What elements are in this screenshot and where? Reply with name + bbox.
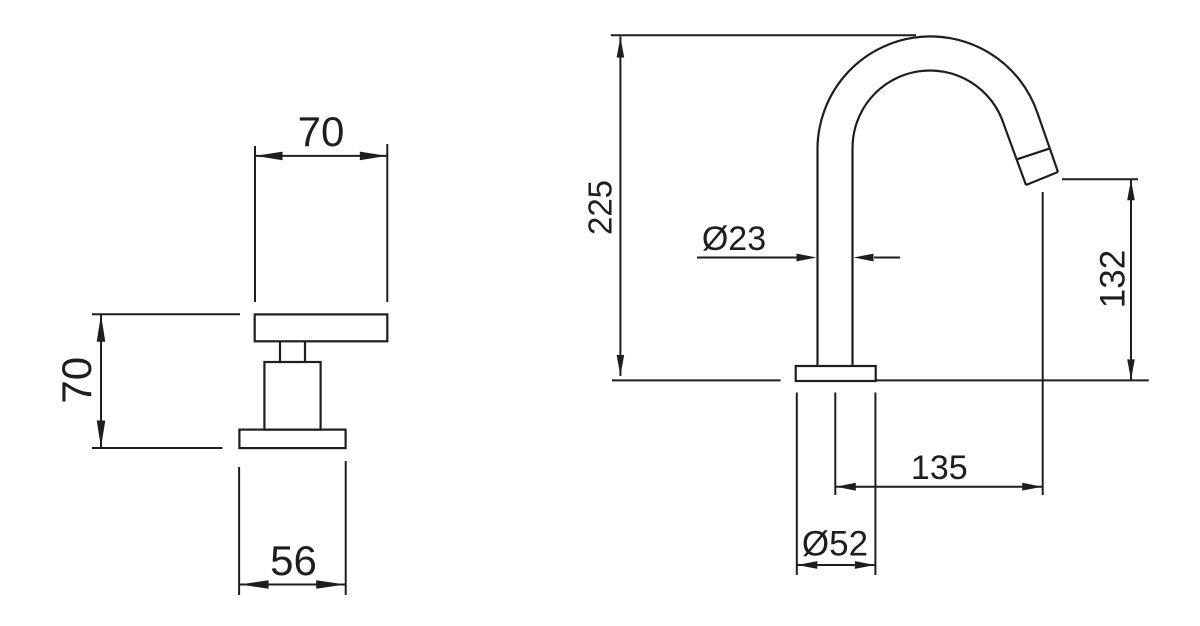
dimension 70 (top width): right arrow	[360, 152, 387, 161]
dimension Ø23: value label	[702, 220, 766, 258]
dimension 70 (top width): value label	[298, 108, 345, 155]
dimension Ø52: value label	[802, 525, 868, 564]
dimension 70 (height): dimension line	[100, 314, 102, 448]
dimension 132: value label (rotated)	[1094, 250, 1133, 308]
dimension 225: value label (rotated)	[582, 180, 619, 235]
dimension 225 (spout height): bottom arrow	[617, 355, 625, 376]
dimension Ø52: dimension line	[797, 564, 876, 566]
dimension 70 (height): top arrow	[97, 315, 106, 342]
dimension 56 (base width): extension line left	[238, 467, 240, 595]
countertop line right of base	[876, 379, 1149, 381]
spout aerator band line	[1017, 148, 1050, 159]
dimension 132 (spout outlet height): top extension line	[1062, 178, 1138, 180]
handle stem left line	[279, 341, 281, 362]
dimension 135: value label	[911, 449, 968, 487]
countertop line left of base	[612, 379, 781, 381]
dimension Ø23 (tube diameter): left leader line	[697, 257, 797, 259]
dimension 56 (base width): right arrow	[316, 580, 345, 589]
svg-text:56: 56	[270, 537, 317, 584]
dimension 135 (outlet reach): extension line from base centre	[834, 393, 836, 496]
dimension 70 (height): extension line bottom	[92, 447, 222, 449]
dimension 70 (top width): dimension line	[255, 155, 387, 157]
dimension 56 (base width): value label	[270, 537, 317, 584]
svg-text:70: 70	[298, 108, 345, 155]
dimension 70 (top width): left arrow	[256, 152, 283, 161]
dimension Ø52: left arrow	[797, 561, 817, 569]
dimension Ø52 (base diameter): extension line left	[796, 393, 798, 576]
dimension 135: dimension line	[835, 486, 1042, 488]
spout body (gooseneck tube)	[818, 36, 1059, 366]
svg-text:70: 70	[53, 357, 100, 404]
dimension 135: extension line from outlet	[1042, 192, 1044, 495]
svg-text:132: 132	[1094, 250, 1133, 308]
dimension Ø23: right leader line	[874, 257, 900, 259]
dimension 70 (top width): extension line right	[386, 144, 388, 302]
dimension 225 (spout height): dimension line	[619, 37, 621, 377]
svg-text:135: 135	[911, 449, 968, 487]
dimension 132: top arrow	[1127, 180, 1135, 201]
svg-text:225: 225	[582, 180, 619, 235]
dimension 56 (base width): left arrow	[240, 580, 269, 589]
dimension Ø23: right arrow	[854, 254, 874, 262]
handle body	[264, 362, 320, 430]
dimension Ø52: extension line right	[874, 393, 876, 576]
dimension 56 (base width): dimension line	[239, 584, 346, 586]
dimension 132: dimension line	[1130, 179, 1132, 380]
dimension 56 (base width): extension line right	[345, 461, 347, 595]
dimension 132: bottom arrow	[1127, 359, 1135, 380]
handle top bar (left view)	[255, 314, 388, 341]
dimension Ø52: right arrow	[855, 561, 875, 569]
svg-text:Ø23: Ø23	[702, 220, 766, 258]
dimension 70 (height): bottom arrow	[97, 421, 106, 448]
svg-text:Ø52: Ø52	[802, 525, 868, 564]
handle stem right line	[304, 341, 306, 362]
spout base flange	[796, 366, 876, 381]
dimension 70 (height): extension line top	[92, 313, 240, 315]
dimension 135: right arrow	[1022, 483, 1042, 491]
dimension 225 (spout height): top arrow	[617, 37, 625, 58]
dimension 135: left arrow	[836, 483, 856, 491]
dimension 225 (spout height): top extension line	[611, 34, 916, 36]
dimension 70 (top width): extension line left	[254, 146, 256, 302]
handle base flange	[239, 430, 345, 449]
dimension Ø23: left arrow	[797, 254, 817, 262]
dimension 70 (height): value label (rotated)	[53, 357, 100, 404]
